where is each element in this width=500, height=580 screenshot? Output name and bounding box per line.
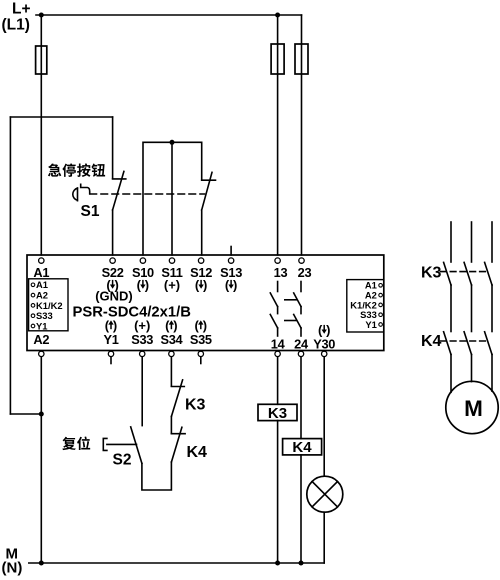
svg-text:): ) (326, 323, 330, 338)
coil K4 (283, 439, 322, 455)
stub S13 (230, 247, 232, 256)
contact S2 reset (NO) (131, 427, 142, 464)
relay right terminal-map box (347, 280, 384, 332)
svg-text:(+): (+) (164, 278, 180, 293)
svg-text:(L1): (L1) (2, 17, 30, 34)
contact K4 NC feedback (171, 427, 185, 462)
wire K3 coil to N rail (277, 421, 279, 563)
junction dot rail/A2 (39, 412, 44, 417)
stub Y1 (110, 357, 112, 364)
svg-text:S13: S13 (220, 265, 242, 280)
wire lamp to N rail (323, 512, 325, 563)
wire rail to S1 contact1 (112, 117, 114, 179)
svg-text:Y1: Y1 (36, 320, 47, 331)
relay internal contacts path 277 (277, 282, 279, 292)
svg-text:(N): (N) (2, 560, 23, 577)
wire rail joins A2 line (10, 413, 41, 415)
wire K4 coil to N rail (300, 455, 302, 563)
junction dot bracket/S11 (170, 140, 175, 145)
indicator lamp (307, 476, 343, 512)
wire phase feeders (450, 222, 452, 262)
svg-text:K4: K4 (187, 444, 208, 461)
relay bottom terminal circles (39, 351, 44, 356)
wire S22 branch horizontal (10, 116, 112, 118)
contactor K3 main contacts (444, 262, 451, 285)
wire L+ top rail (36, 14, 302, 16)
internal linkage bar lower (285, 320, 296, 322)
motor M (446, 381, 498, 433)
svg-text:S12: S12 (190, 265, 212, 280)
wire S1 contact2 to S12 (201, 210, 203, 255)
wire L+ to A1 (40, 15, 42, 255)
mechanical link dashed S1 (90, 193, 205, 195)
svg-text:K4: K4 (421, 333, 442, 350)
svg-text:): ) (233, 278, 237, 293)
wire 14 to K3 coil (277, 357, 279, 405)
svg-text:A1: A1 (33, 265, 49, 280)
contact K3 NC feedback (171, 380, 184, 417)
contactor K4 main contacts (444, 332, 451, 355)
svg-text:K3: K3 (421, 265, 442, 282)
svg-text:): ) (173, 318, 177, 333)
reset operator S2 (103, 438, 107, 450)
svg-text:M: M (464, 396, 483, 421)
wire Y30 to lamp (323, 357, 325, 476)
stub S35 (200, 357, 202, 364)
safety relay U1 PSR-SDC4/2x1/B box (27, 255, 384, 351)
wire K3 to K4 contact (170, 417, 172, 434)
svg-text:(GND): (GND) (95, 289, 133, 304)
junction dot 13 branch (275, 13, 280, 18)
wire S10-S12 bracket (143, 142, 202, 255)
svg-text:K4: K4 (292, 439, 312, 456)
svg-text:S10: S10 (132, 265, 154, 280)
relay internal contacts path 301 (300, 282, 302, 292)
svg-text:Y1: Y1 (365, 319, 376, 330)
fuse F1 (36, 46, 47, 74)
svg-text:(: ( (195, 318, 200, 333)
svg-text:Y1: Y1 (103, 332, 118, 347)
relay left terminal-map box (29, 279, 68, 331)
junction dot K4/N rail (299, 561, 304, 566)
svg-text:(+): (+) (134, 318, 150, 333)
junction dot A2/N rail (39, 561, 44, 566)
junction dot A1 branch (39, 13, 44, 18)
contact S1 channel2 (NC) (202, 172, 216, 210)
svg-text:S1: S1 (81, 203, 100, 220)
wire N bottom rail (29, 562, 324, 564)
svg-text:(: ( (105, 318, 110, 333)
svg-text:S35: S35 (190, 332, 212, 347)
wire S33 to S2 (141, 357, 143, 426)
wire reset loop bottom U (142, 462, 172, 490)
wire S1 contact1 to S22 (112, 210, 114, 255)
svg-text:): ) (203, 278, 207, 293)
svg-text:S33: S33 (131, 332, 153, 347)
coil K3 (258, 404, 297, 420)
svg-text:(: ( (165, 318, 170, 333)
wires K4 to motor (450, 355, 452, 393)
wire S11 lead (171, 142, 173, 255)
wire A2 to N rail (40, 357, 42, 563)
linkage dashed K4 (441, 340, 488, 342)
svg-text:K3: K3 (268, 405, 287, 422)
linkage dashed K3 (441, 271, 488, 273)
svg-text:13: 13 (274, 265, 288, 280)
wire S34 to K3 contact (170, 357, 172, 386)
wire 24 to K4 coil (300, 357, 302, 439)
svg-text:S2: S2 (113, 452, 132, 469)
svg-text:L+: L+ (12, 1, 31, 18)
emergency stop operator S1 (mushroom head) (73, 188, 78, 201)
wire L+ to terminal 23 (301, 15, 303, 255)
junction dot K3/N rail (275, 561, 280, 566)
wire left rail vertical (9, 117, 11, 414)
operator link S2 (107, 443, 137, 445)
svg-text:24: 24 (294, 337, 309, 352)
svg-text:S34: S34 (160, 332, 183, 347)
svg-text:23: 23 (298, 265, 312, 280)
relay top terminal circles (39, 258, 44, 263)
svg-text:): ) (113, 318, 117, 333)
contact S1 channel1 (NC) (113, 171, 126, 210)
svg-text:A2: A2 (33, 332, 49, 347)
wire between K3 and K4 contacts (450, 285, 452, 332)
svg-text:14: 14 (271, 337, 286, 352)
label 急停按钮 (48, 163, 61, 176)
wire L+ to terminal 13 (277, 15, 279, 255)
svg-text:): ) (203, 318, 207, 333)
fuse F2 (271, 44, 284, 74)
svg-text:S22: S22 (102, 265, 124, 280)
svg-text:): ) (145, 278, 149, 293)
internal linkage bar upper (285, 299, 296, 301)
fuse F3 (295, 44, 308, 74)
label 复位 (62, 437, 75, 450)
svg-text:Y30: Y30 (313, 337, 335, 352)
svg-text:K3: K3 (185, 397, 206, 414)
